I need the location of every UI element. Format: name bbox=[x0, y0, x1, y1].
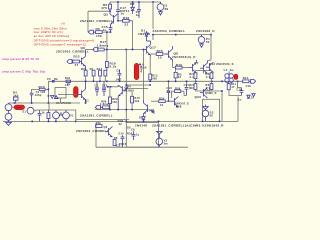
transistor Q6b bbox=[105, 127, 113, 138]
svg-text:50: 50 bbox=[206, 40, 210, 44]
svg-text:1.8meg: 1.8meg bbox=[100, 102, 110, 106]
svg-text:R34: R34 bbox=[159, 96, 165, 100]
svg-text:2SA1381_CORDELL(A)C1M: 2SA1381_CORDELL(A)C1M bbox=[152, 124, 197, 128]
svg-text:22: 22 bbox=[124, 23, 128, 27]
svg-text:1.2: 1.2 bbox=[102, 86, 107, 90]
transistor Q6 bbox=[82, 50, 86, 71]
box around source G2 bbox=[203, 99, 220, 121]
transistor Q9 stub bbox=[151, 109, 155, 114]
emitter resistor R22 bbox=[194, 73, 197, 79]
svg-text:1u: 1u bbox=[136, 133, 140, 137]
svg-text:1u: 1u bbox=[103, 28, 107, 32]
svg-text:R21: R21 bbox=[81, 67, 87, 71]
inductor L1 bbox=[225, 72, 234, 83]
svg-text:in+: in+ bbox=[17, 106, 22, 110]
svg-text:1u: 1u bbox=[120, 12, 124, 16]
capacitor C15L bbox=[102, 82, 106, 97]
transistor Q14 bbox=[200, 88, 208, 99]
port arrow out bbox=[251, 79, 256, 83]
svg-text:30k: 30k bbox=[134, 99, 139, 103]
emitter resistor R30 bbox=[210, 73, 213, 79]
svg-text:100p: 100p bbox=[35, 93, 42, 97]
svg-text:1u: 1u bbox=[189, 86, 193, 90]
wire y85 mid stub bbox=[126, 84, 150, 86]
red net capsule vas bbox=[74, 87, 79, 98]
wire top rail V+ bbox=[110, 1, 161, 3]
resistor R13b bbox=[32, 88, 49, 93]
wires emitter columns bbox=[196, 71, 223, 122]
svg-text:430: 430 bbox=[152, 76, 157, 80]
svg-text:Q9: Q9 bbox=[151, 109, 155, 113]
svg-text:B2: B2 bbox=[59, 113, 63, 117]
svg-text:2SC3503_CORDELL: 2SC3503_CORDELL bbox=[56, 49, 89, 53]
svg-text:24: 24 bbox=[178, 75, 182, 79]
wire diode node to Q1 base bbox=[58, 94, 78, 96]
svg-text:.OPTIONS numdgt=7 measdgt=12: .OPTIONS numdgt=7 measdgt=12 bbox=[33, 42, 87, 46]
wire left drop bbox=[87, 11, 89, 32]
svg-text:L1: L1 bbox=[224, 68, 228, 72]
resistor R34b bbox=[66, 80, 71, 82]
red net capsule in+ bbox=[14, 105, 25, 110]
svg-text:0W15: 0W15 bbox=[119, 142, 127, 146]
ground above V3 bbox=[157, 131, 163, 135]
svg-text:C1b: C1b bbox=[246, 84, 252, 88]
svg-text:E1: E1 bbox=[23, 110, 27, 114]
emitter resistor R31 bbox=[210, 84, 213, 90]
resistor R1c bbox=[92, 70, 95, 81]
transistor Q1 bbox=[78, 81, 86, 103]
transistor Q7 bbox=[190, 60, 197, 73]
resistor R29 bbox=[108, 87, 111, 110]
transistor Q3 bbox=[110, 11, 118, 25]
wire base row y34.6 bbox=[153, 34, 211, 36]
svg-text:R12: R12 bbox=[74, 55, 80, 59]
capacitor C15r bbox=[185, 81, 189, 96]
svg-text:C8: C8 bbox=[116, 68, 120, 72]
svg-text:47: 47 bbox=[75, 63, 79, 67]
voltage source G2 bbox=[202, 109, 209, 121]
capacitor C17 bbox=[116, 2, 120, 21]
capacitor C8 bbox=[118, 70, 122, 82]
wire R11 bottom bbox=[229, 89, 242, 95]
svg-text:130: 130 bbox=[112, 100, 117, 104]
wire input net y110 bbox=[34, 109, 60, 112]
resistor R26 bbox=[172, 90, 187, 98]
svg-text:0.1: 0.1 bbox=[206, 75, 211, 79]
svg-text:60: 60 bbox=[165, 7, 169, 11]
resistor R34 bbox=[151, 100, 172, 103]
capacitor C6 bbox=[132, 131, 136, 140]
voltage source V4 bbox=[5, 103, 12, 111]
capacitor C1 bbox=[95, 82, 99, 97]
svg-text:R26: R26 bbox=[175, 86, 181, 90]
svg-text:.step param R 20 70 10: .step param R 20 70 10 bbox=[1, 57, 39, 61]
svg-text:2SC3503_CORDELL: 2SC3503_CORDELL bbox=[153, 29, 186, 33]
svg-text:1k: 1k bbox=[42, 110, 46, 114]
svg-text:D8: D8 bbox=[130, 2, 134, 6]
svg-text:470: 470 bbox=[101, 6, 107, 10]
svg-text:R33: R33 bbox=[127, 132, 133, 136]
wire base bus y49.5 bbox=[104, 49, 143, 51]
wire capsule row bbox=[12, 106, 14, 108]
svg-text:5m: 5m bbox=[164, 141, 169, 145]
box bias network bbox=[126, 123, 158, 148]
transistor Q28 bbox=[172, 97, 179, 108]
svg-text:1p: 1p bbox=[167, 89, 171, 93]
behavioral source box U1 bbox=[55, 88, 66, 98]
wire x48.4 vertical bbox=[47, 81, 49, 103]
svg-text:Q28: Q28 bbox=[176, 105, 182, 109]
svg-text:2N3904: 2N3904 bbox=[124, 88, 135, 92]
svg-text:R18: R18 bbox=[123, 16, 129, 20]
svg-text:2SA1381_CORDELL: 2SA1381_CORDELL bbox=[80, 114, 113, 118]
svg-text:R16: R16 bbox=[176, 63, 182, 67]
capacitor C7 bbox=[137, 2, 141, 18]
port arrow + resistor R28 bbox=[95, 105, 109, 109]
svg-text:D3: D3 bbox=[139, 116, 143, 120]
red net capsule vd bbox=[134, 63, 143, 79]
svg-text:1k: 1k bbox=[65, 83, 69, 87]
wire x211 down to Q13 bbox=[210, 35, 212, 60]
wire bottom boxes rail bbox=[96, 146, 188, 148]
wire y88.6 mid stub bbox=[126, 88, 148, 90]
resistor R19 bbox=[105, 62, 108, 71]
svg-text:47: 47 bbox=[231, 85, 235, 89]
transistor Q13 bbox=[200, 60, 211, 74]
svg-text:R13: R13 bbox=[39, 85, 45, 89]
svg-text:43_K2SK1943_R: 43_K2SK1943_R bbox=[197, 124, 225, 128]
wire y110 mid bbox=[60, 110, 76, 121]
resistor R4 bbox=[13, 97, 18, 103]
svg-text:Q3: Q3 bbox=[104, 13, 109, 17]
node junction dots top bbox=[109, 1, 154, 21]
svg-text:V1: V1 bbox=[70, 113, 74, 117]
ground inside box bbox=[203, 105, 209, 110]
resistor R3 bbox=[174, 69, 177, 81]
svg-text:1u: 1u bbox=[136, 13, 140, 17]
svg-text:C10: C10 bbox=[118, 131, 124, 135]
svg-text:4u: 4u bbox=[230, 68, 234, 72]
wire input row y103 bbox=[9, 102, 81, 104]
svg-text:R14: R14 bbox=[97, 67, 103, 71]
emitter resistor R23 bbox=[194, 84, 197, 90]
svg-text:C6: C6 bbox=[131, 128, 135, 132]
resistor R17 + port bbox=[86, 48, 105, 52]
wire y86.8 bbox=[107, 86, 118, 88]
wire right edge up bbox=[237, 97, 239, 122]
diode D8 bbox=[131, 2, 135, 14]
ground left bbox=[6, 121, 12, 125]
source circle B1 bbox=[63, 110, 70, 121]
resistor R8 bbox=[113, 140, 116, 146]
svg-text:R15: R15 bbox=[157, 49, 163, 53]
current source I2 bbox=[198, 35, 205, 48]
wire output node down bbox=[238, 81, 242, 87]
transistor Q10 bbox=[144, 100, 148, 116]
resistor R19b bbox=[104, 70, 107, 81]
svg-text:Q1: Q1 bbox=[85, 99, 89, 103]
resistor R1 bbox=[47, 110, 50, 121]
svg-text:.ac dec 300 20 100meg: .ac dec 300 20 100meg bbox=[33, 34, 70, 38]
diode pair D3 D4 bbox=[51, 96, 59, 99]
diode D1 bbox=[145, 31, 149, 41]
red net capsule out bbox=[234, 74, 238, 79]
svg-text:R34: R34 bbox=[65, 76, 71, 80]
svg-text:2SA1381_CORDELL: 2SA1381_CORDELL bbox=[80, 19, 113, 23]
port arrow + resistor R12 bbox=[67, 60, 82, 64]
wire bottom ground rail bbox=[3, 120, 238, 122]
svg-text:Q23: Q23 bbox=[195, 95, 202, 99]
svg-text:22: 22 bbox=[119, 122, 123, 126]
junction dots on main rail bbox=[52, 81, 238, 83]
svg-text:0.1: 0.1 bbox=[190, 75, 195, 79]
voltage source V3 bbox=[156, 136, 163, 147]
capacitor C15 bbox=[109, 26, 113, 33]
small triangle marker bbox=[252, 94, 255, 97]
capacitor C13 bbox=[167, 81, 171, 103]
svg-text:Rb: Rb bbox=[54, 77, 58, 81]
capacitor C16b bbox=[121, 135, 125, 147]
port arrow + resistor R6 bbox=[88, 30, 110, 34]
svg-text:Q5M0_K: Q5M0_K bbox=[205, 91, 217, 95]
wire x132.5 down to base bus bbox=[132, 21, 134, 50]
SPICE directive +9 (red) bbox=[33, 22, 95, 47]
resistor R10 30k bbox=[131, 91, 134, 109]
resistor R11 bbox=[227, 82, 230, 89]
capacitor C6s bbox=[52, 81, 55, 83]
svg-text:1k5: 1k5 bbox=[13, 93, 19, 97]
voltage source V1i bbox=[53, 110, 60, 121]
svg-text:+9: +9 bbox=[61, 22, 65, 26]
svg-text:.step param C 50p 70p 10p: .step param C 50p 70p 10p bbox=[1, 69, 46, 73]
wire y109.6 bbox=[95, 109, 148, 111]
wire x106.9 down to R19 bbox=[106, 32, 108, 61]
capacitor C16o bbox=[240, 88, 244, 96]
transistor Q9r (right of Q7) bbox=[206, 62, 214, 73]
transistor Q8 bbox=[165, 46, 173, 62]
svg-text:2SC3503(A)_K: 2SC3503(A)_K bbox=[172, 55, 196, 59]
wire x49 vertical low bbox=[48, 103, 50, 110]
svg-text:15: 15 bbox=[158, 56, 162, 60]
resistor R5 bbox=[109, 2, 112, 11]
transistor Q4 bbox=[118, 85, 126, 109]
resistor 22k bbox=[96, 125, 102, 128]
svg-text:2SC3503_CORDELL: 2SC3503_CORDELL bbox=[76, 129, 109, 133]
svg-text:1N4148: 1N4148 bbox=[135, 124, 147, 128]
resistor R15 bbox=[151, 53, 169, 56]
svg-text:R6: R6 bbox=[96, 27, 100, 31]
current source I1 bbox=[157, 2, 164, 15]
capacitor C2 bbox=[38, 110, 42, 121]
resistor R13 bbox=[149, 57, 152, 82]
wire node row y12 bbox=[88, 10, 110, 12]
svg-text:16: 16 bbox=[160, 103, 164, 107]
svg-text:.047: .047 bbox=[115, 77, 122, 81]
transistor Q17 bbox=[144, 41, 151, 57]
diode D3b bbox=[142, 116, 146, 121]
wire main bus rail y81.3 bbox=[48, 80, 242, 82]
resistor R14a bbox=[99, 70, 102, 81]
svg-text:R8: R8 bbox=[114, 136, 118, 140]
wire y119.6 bias top bbox=[76, 119, 129, 121]
wire x126.3 long vertical bbox=[125, 50, 127, 123]
svg-text:471: 471 bbox=[95, 86, 100, 90]
svg-text:U1 LT1468: U1 LT1468 bbox=[56, 101, 71, 105]
resistor R16 bbox=[173, 62, 190, 69]
resistor R21 bbox=[84, 70, 87, 81]
svg-text:Q7: Q7 bbox=[194, 61, 199, 65]
source E1 bbox=[27, 107, 34, 114]
voltage source V5b bbox=[5, 111, 12, 122]
wire x153 vertical low bbox=[152, 35, 154, 40]
diode D15 bbox=[247, 95, 250, 98]
svg-text:22k: 22k bbox=[96, 121, 101, 125]
svg-text:2SC3208_K: 2SC3208_K bbox=[196, 29, 215, 33]
svg-text:C6: C6 bbox=[47, 77, 51, 81]
wire left box edge bbox=[95, 123, 97, 148]
svg-text:R1: R1 bbox=[90, 67, 94, 71]
svg-text:50: 50 bbox=[210, 113, 214, 117]
svg-text:150: 150 bbox=[96, 34, 102, 38]
.step param directives (magenta) bbox=[1, 57, 46, 73]
wire vertical x153 upper bbox=[152, 2, 154, 29]
wire Q10 collector up bbox=[143, 50, 145, 101]
resistor R18 bbox=[118, 19, 133, 22]
svg-text:Q17: Q17 bbox=[150, 46, 157, 50]
capacitor C4 bbox=[30, 93, 34, 103]
svg-text:R14: R14 bbox=[243, 76, 249, 80]
svg-text:Q13 2SC3503_K: Q13 2SC3503_K bbox=[209, 62, 235, 66]
svg-text:1N4148: 1N4148 bbox=[138, 32, 150, 36]
resistor R14 bbox=[243, 80, 249, 83]
